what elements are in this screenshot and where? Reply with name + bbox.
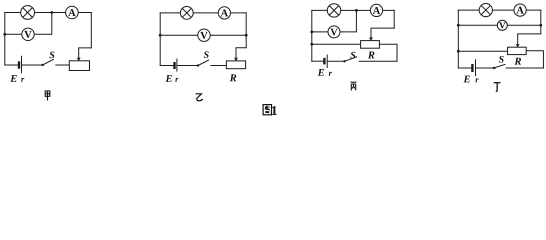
node: V-branch left 乙 [159,34,162,37]
battery E r 丁 [472,59,475,76]
voltmeter V4 丁 [497,20,507,30]
label E battery 乙 [165,75,171,82]
wire: left vertical 丁 [457,10,459,68]
label E battery 丁 [463,76,469,83]
label 丙 (drawn glyph) [351,82,357,90]
switch S 丙 [343,57,357,63]
node: V-branch left 丁 [457,24,460,27]
wire: right vertical 甲 [90,13,92,48]
ammeter A4 丁 [514,4,526,16]
ammeter A1 甲 [66,6,79,19]
wire: bottom wire mid 丙 [327,60,343,62]
slider arrowhead 丁 [516,44,520,47]
wire: right vertical 丙 [393,10,395,28]
slider arrowhead 甲 [77,58,81,61]
caption glyph 图 (drawn) [263,105,271,115]
wire: bottom wire mid 甲 [22,64,42,66]
battery E r 乙 [175,59,177,72]
wire: voltmeter branch 乙 [160,34,246,36]
battery E r 甲 [19,56,22,73]
voltmeter V3 丙 [328,26,340,38]
switch S 甲 [41,59,53,66]
label S switch 甲 [49,52,54,59]
wire: bottom wire right 丁 [506,67,543,69]
label r battery 丙 [329,72,332,76]
wire: rheostat left feed 丙 [312,43,361,45]
label r battery 丁 [475,78,478,82]
label 丁 (drawn glyph) [494,83,501,92]
rheostat box R 乙 [226,61,245,69]
label S switch 丁 [499,56,504,63]
wire: left vertical 乙 [159,13,161,66]
node: V-branch left 丙 [310,31,313,34]
wire: voltmeter branch 丙 [312,10,357,32]
wire: top wire 丁 [458,9,541,11]
label S switch 丙 [350,52,355,59]
label E battery 甲 [10,75,16,82]
wire: voltmeter branch 丁 [458,24,541,26]
wire: jog to slider 丙 [371,28,394,37]
lamp L2 乙 [180,6,193,19]
battery E r 丙 [324,55,327,68]
wire: jog to slider 丁 [518,34,541,44]
wire: bottom wire mid 乙 [177,65,197,67]
label S switch 乙 [204,51,209,58]
wire: bottom wire mid 丁 [476,67,496,69]
wire: bottom wire right 乙 [211,65,227,67]
wire: jog to slider 乙 [236,48,246,58]
wire: top wire 丙 [312,9,394,11]
wire: voltmeter branch 甲 [5,13,52,35]
ammeter A3 丙 [370,4,382,16]
node: V-branch left 甲 [3,33,6,36]
node: top junction 丙 [355,9,358,12]
label 乙 (drawn glyph) [196,94,203,101]
lamp L3 丙 [327,4,340,17]
voltmeter V1 甲 [22,28,34,40]
label R rheostat 乙 [230,74,237,81]
wire: bottom wire right 丙 [359,60,397,62]
node: V-branch right 丁 [539,24,542,27]
label 甲 (drawn glyph) [45,91,50,101]
node: V-branch right 乙 [245,34,248,37]
wire: right vertical 丁 [540,10,542,34]
lamp L1 甲 [21,6,35,20]
wire: rheostat right to bottom 丙 [379,44,397,61]
node: rheostat feed 丁 [457,50,460,53]
slider arrowhead 丙 [369,38,373,41]
label R rheostat 丁 [514,58,521,65]
rheostat box R 丁 [508,47,527,54]
label E battery 丙 [318,69,324,76]
slider arrowhead 乙 [234,58,238,61]
wire: top wire 乙 [160,12,246,14]
switch S 乙 [197,60,209,67]
switch S 丁 [493,64,506,69]
label r battery 甲 [21,78,24,82]
lamp L4 丁 [479,4,492,17]
rheostat box R 丙 [361,41,380,49]
wire: bottom wire left 丙 [312,60,323,62]
wire: left vertical 丙 [311,10,313,61]
rheostat box 甲 [69,61,89,71]
node: top junction 甲 [50,11,53,14]
wire: jog to slider 甲 [79,48,92,58]
label R rheostat 丙 [368,52,375,59]
wire: right vertical 乙 [245,13,247,48]
wire: rheostat left feed 丁 [458,50,507,52]
node: rheostat feed 丙 [310,43,313,46]
wire: top wire 甲 [5,12,92,14]
wire: bottom wire left 丁 [458,67,471,69]
wire: rheostat right to bottom 丁 [526,51,543,68]
wire: bottom wire left 甲 [5,64,18,66]
wire: left vertical 甲 [4,13,6,66]
label r battery 乙 [175,78,178,82]
voltmeter V2 乙 [198,29,210,41]
wire: bottom wire left 乙 [160,65,173,67]
caption numeral 1 [272,106,277,115]
ammeter A2 乙 [218,7,230,19]
wire: bottom wire right 甲 [56,64,70,66]
